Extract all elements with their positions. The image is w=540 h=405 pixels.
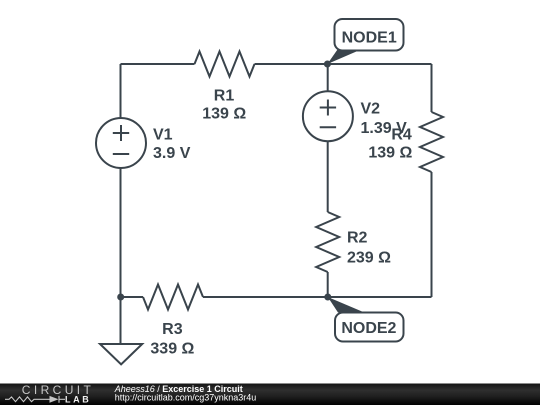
wire bottom rail right segment: [203, 296, 432, 298]
junction node at NODE1: [324, 61, 331, 68]
wire right rail upper: [431, 64, 433, 112]
resistor R2: [316, 212, 339, 272]
voltage source V2: [303, 91, 353, 141]
svg-text:LAB: LAB: [65, 394, 91, 404]
resistor R1: [195, 52, 255, 77]
wire top rail left segment: [121, 63, 195, 65]
wire ground lead: [120, 297, 122, 344]
wire left rail upper: [120, 64, 122, 118]
svg-text:139 Ω: 139 Ω: [202, 106, 246, 123]
ground: [100, 344, 142, 364]
wire top rail right segment: [255, 63, 432, 65]
wire middle branch upper: [327, 64, 329, 91]
svg-text:NODE1: NODE1: [342, 30, 397, 47]
wire middle branch between V2 and R2: [327, 142, 329, 212]
footer bar: [0, 384, 540, 405]
svg-text:V1: V1: [153, 126, 173, 143]
svg-text:R4: R4: [391, 127, 412, 144]
resistor R3: [143, 285, 203, 310]
svg-text:V2: V2: [361, 101, 381, 118]
svg-text:R1: R1: [214, 88, 235, 105]
svg-text:339 Ω: 339 Ω: [150, 341, 194, 358]
svg-text:239 Ω: 239 Ω: [347, 250, 391, 267]
svg-text:R2: R2: [347, 229, 368, 246]
svg-text:NODE2: NODE2: [341, 320, 396, 337]
svg-text:R3: R3: [162, 321, 183, 338]
resistor R4: [420, 112, 443, 172]
wire left rail lower: [120, 169, 122, 298]
node NODE2 callout: [328, 297, 404, 342]
wire bottom rail left stub: [121, 296, 144, 298]
footer logo resistor-diode line: [5, 396, 65, 403]
svg-text:http://circuitlab.com/cg37ynkn: http://circuitlab.com/cg37ynkna3r4u: [115, 393, 257, 403]
voltage source V1: [96, 118, 146, 168]
node NODE1 callout: [327, 19, 403, 64]
svg-text:139 Ω: 139 Ω: [368, 145, 412, 162]
junction node at NODE2: [324, 294, 331, 301]
wire right rail lower: [431, 172, 433, 297]
svg-text:3.9 V: 3.9 V: [153, 145, 191, 162]
wire middle branch lower: [327, 272, 329, 297]
junction node at ground: [117, 294, 124, 301]
